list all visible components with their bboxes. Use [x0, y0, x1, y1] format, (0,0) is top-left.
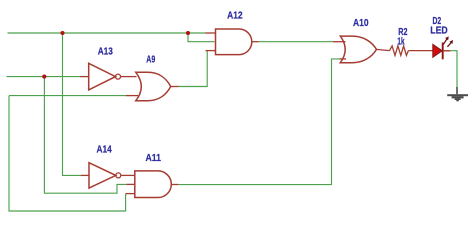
inverter A13 [80, 63, 136, 90]
or-gate A10 [333, 36, 390, 63]
wire V3 from W3 corner down and along bottom to A11 pin3 [9, 96, 126, 211]
wire W2 second input net to A13 [7, 76, 82, 78]
wire A12 output to A10 pin1 [259, 41, 333, 43]
svg-text:1k: 1k [397, 36, 404, 48]
ground [447, 87, 468, 101]
svg-text:A11: A11 [146, 152, 162, 164]
wire V2 from node at x44.3 down to A11 pin2 [44, 77, 126, 194]
node junction dot on W1 at x62.5 [60, 31, 64, 35]
svg-text:A14: A14 [97, 143, 112, 155]
inverter A14 [81, 163, 135, 188]
svg-text:A12: A12 [227, 9, 243, 21]
and-gate A12 [206, 29, 259, 55]
wire branch from node x188 to A12 pin2 [188, 33, 215, 42]
node junction dot on W2 at x44.3 [42, 75, 46, 79]
svg-text:A10: A10 [353, 17, 369, 29]
wire A9 output up to A12 pin3 [179, 51, 208, 87]
wire W3 third input net to A9 pin2 [9, 95, 127, 97]
svg-text:A13: A13 [98, 46, 113, 58]
resistor R2 [390, 46, 433, 56]
led D2 [433, 36, 453, 59]
node junction dot on W1 at x188 [186, 31, 190, 35]
wire A11 output to A10 pin2 [178, 59, 340, 185]
and-gate A11 [126, 171, 179, 198]
svg-text:A9: A9 [146, 53, 155, 65]
wire V1 from node at x62.5 down to A14 input [63, 33, 82, 175]
wire LED cathode to ground [450, 51, 457, 88]
wire W1 top input net [8, 32, 207, 34]
or-gate A9 [126, 72, 179, 100]
svg-text:LED: LED [430, 24, 448, 36]
